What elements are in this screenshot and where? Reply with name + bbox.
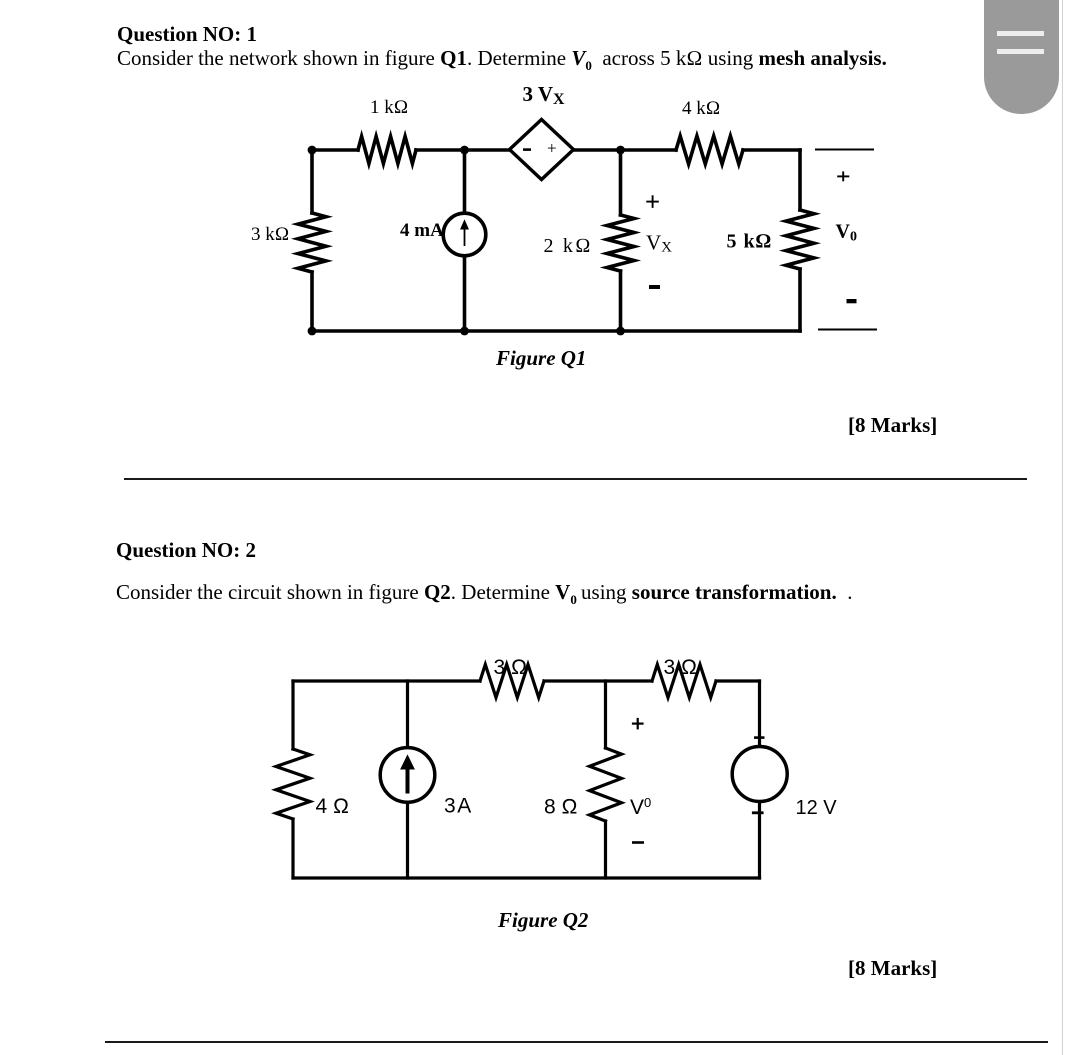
current source I2 arrow bbox=[401, 756, 414, 794]
resistor R 4k zigzag bbox=[676, 136, 743, 164]
wire right branch upper bbox=[758, 681, 761, 746]
wire 2k branch lower bbox=[619, 271, 623, 331]
voltage source V1 circle bbox=[732, 747, 787, 802]
resistor R 3k zigzag bbox=[298, 213, 326, 272]
svg-text:4 Ω: 4 Ω bbox=[316, 795, 350, 818]
resistor R 2k zigzag bbox=[607, 215, 634, 271]
wire 8ohm branch lower bbox=[604, 821, 607, 878]
wire current source branch upper bbox=[406, 681, 409, 748]
voltage source V1 minus sign bbox=[752, 811, 764, 814]
resistor R 4ohm zigzag bbox=[276, 749, 310, 819]
wire between 3ohm resistors bbox=[544, 679, 652, 682]
current source I1 circle bbox=[443, 213, 486, 256]
label minus of V0 bbox=[632, 841, 644, 844]
wire 8ohm branch upper bbox=[604, 681, 607, 748]
open terminal bottom line bbox=[818, 329, 877, 331]
marks 1 bbox=[848, 413, 937, 438]
Question 2 heading bbox=[116, 538, 256, 563]
node B dot top-middle bbox=[460, 146, 469, 155]
pill bar 1 bbox=[997, 31, 1044, 37]
pill bar 2 bbox=[997, 49, 1044, 55]
node F dot bottom-right bbox=[616, 327, 625, 336]
wire left branch upper bbox=[291, 681, 294, 749]
open terminal top line bbox=[815, 149, 874, 151]
wire left branch lower bbox=[310, 272, 314, 331]
separator line 1 bbox=[124, 478, 1027, 480]
label minus of Vx bbox=[649, 285, 660, 289]
wire current source branch lower bbox=[406, 802, 409, 878]
label plus of Vx bbox=[646, 195, 659, 208]
node A dot top-left bbox=[308, 146, 317, 155]
resistor R 1k zigzag bbox=[358, 137, 416, 164]
svg-text:3 Ω: 3 Ω bbox=[494, 656, 528, 679]
Question 1 body text bbox=[117, 46, 887, 74]
wire 4k to top-right corner bbox=[743, 148, 800, 152]
current source I1 arrow bbox=[461, 221, 468, 247]
wire right branch upper bbox=[798, 150, 802, 210]
resistor R 8ohm zigzag bbox=[590, 748, 622, 821]
Question 2 body text bbox=[116, 580, 852, 608]
diamond minus sign bbox=[523, 148, 531, 151]
wire current-source branch upper bbox=[463, 150, 467, 214]
wire top right segment bbox=[716, 679, 760, 682]
scrollbar pill bbox=[984, 0, 1059, 114]
dependent source U1 diamond bbox=[510, 120, 574, 180]
label plus of V0 bbox=[632, 718, 644, 730]
wire top-left node to 1k bbox=[312, 148, 358, 152]
label minus of V0 bbox=[847, 299, 857, 303]
svg-text:8 Ω: 8 Ω bbox=[544, 796, 578, 819]
wire diamond to node C bbox=[574, 148, 676, 152]
svg-text:V0: V0 bbox=[630, 795, 651, 819]
svg-text:12 V: 12 V bbox=[796, 797, 838, 819]
svg-text:3 Ω: 3 Ω bbox=[664, 656, 698, 679]
wire right branch lower bbox=[798, 269, 802, 331]
wire 2k branch upper bbox=[619, 150, 623, 215]
wire right branch lower bbox=[758, 802, 761, 878]
node D dot bottom-left bbox=[308, 327, 317, 336]
label plus of V0 bbox=[837, 171, 849, 181]
resistor R 3ohm-b zigzag bbox=[652, 665, 716, 698]
separator line 2 bbox=[105, 1041, 1048, 1043]
right page edge line bbox=[1062, 0, 1064, 1055]
marks 2 bbox=[848, 956, 937, 981]
wire top left segment bbox=[293, 679, 480, 682]
node E dot bottom-middle bbox=[460, 327, 469, 336]
wire current-source branch lower bbox=[463, 256, 467, 332]
wire bottom bbox=[293, 876, 760, 879]
Figure Q1 caption bbox=[496, 346, 586, 371]
Figure Q2 caption bbox=[498, 908, 588, 933]
voltage source V1 plus sign bbox=[754, 736, 765, 739]
wire left branch upper bbox=[310, 150, 314, 213]
node C dot top-right bbox=[616, 146, 625, 155]
Question 1 heading bbox=[117, 22, 257, 47]
resistor R 3ohm-a zigzag bbox=[480, 665, 544, 698]
wire 1k to diamond bbox=[416, 148, 509, 152]
wire bottom bbox=[312, 329, 800, 333]
wire left branch lower bbox=[291, 819, 294, 878]
svg-text:3A: 3A bbox=[444, 795, 471, 818]
current source I2 circle bbox=[380, 748, 435, 803]
resistor R 5k zigzag bbox=[786, 210, 814, 269]
